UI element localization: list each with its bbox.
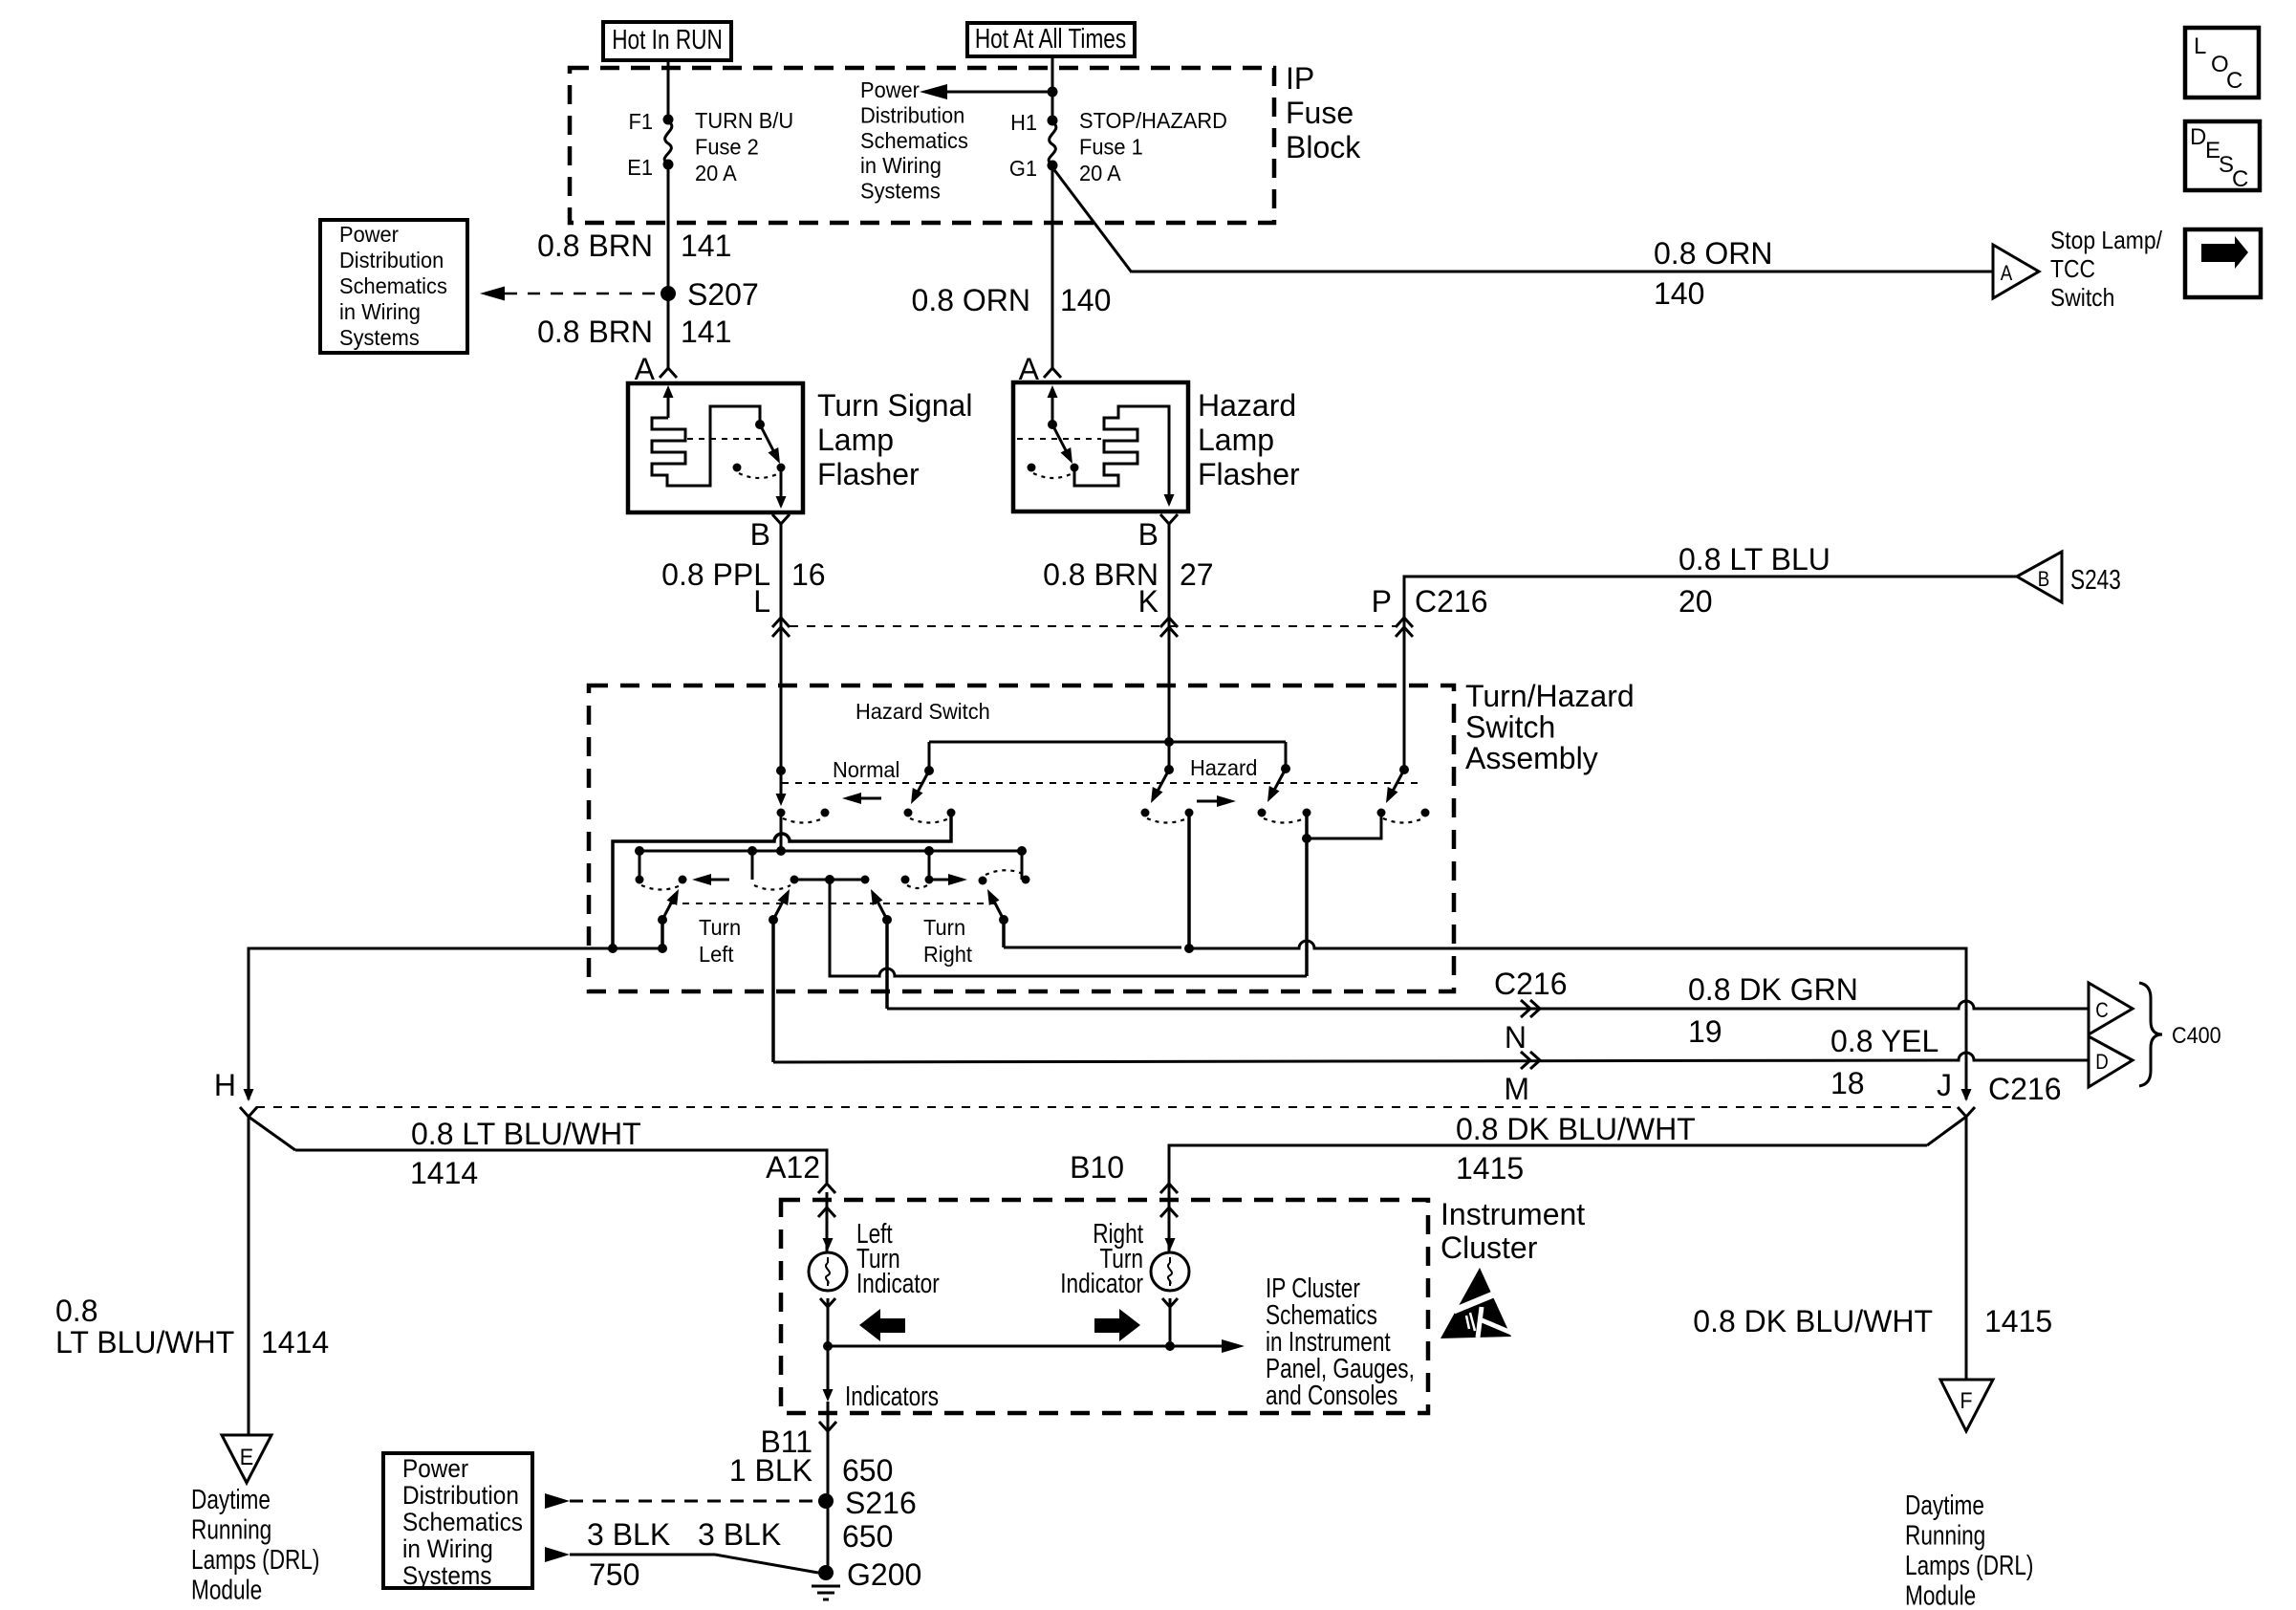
pole K output drop to 1415 feed — [1187, 813, 1191, 948]
bus drop left to pole 2 fixed contact — [928, 742, 931, 771]
svg-text:20 A: 20 A — [1079, 161, 1121, 185]
right turn black arrow — [1094, 1318, 1119, 1333]
turn flasher internal input arrow — [667, 394, 670, 418]
pole 4 lever arrow — [1390, 770, 1404, 796]
svg-text:H: H — [214, 1068, 236, 1102]
pole K moving contacts and arc — [1141, 809, 1150, 817]
svg-text:Turn: Turn — [923, 915, 965, 940]
node: Hot In RUN feed box — [603, 22, 731, 60]
svg-text:0.8 DK BLU/WHT: 0.8 DK BLU/WHT — [1456, 1112, 1696, 1146]
left turn black arrow — [880, 1318, 905, 1333]
turn row dashed line — [669, 903, 994, 904]
connector F triangle to DRL module — [1940, 1380, 1993, 1431]
turn-left direction arrow — [701, 879, 729, 881]
svg-text:3 BLK: 3 BLK — [587, 1517, 670, 1552]
turn outer-right pole contacts and arc (arc above) — [979, 877, 987, 885]
svg-text:Distribution: Distribution — [860, 103, 964, 128]
hazard switch row dashed line — [782, 782, 1423, 784]
wire 0.8 ORN 140 horizontal to Stop Lamp/TCC switch — [1132, 271, 1993, 273]
turn-right pole contacts and arc — [861, 876, 870, 884]
turn flasher output arrow to pin B — [780, 468, 783, 506]
hazard switch top bus — [929, 741, 1286, 744]
svg-text:Assembly: Assembly — [1465, 741, 1598, 775]
svg-text:Switch: Switch — [2050, 285, 2114, 313]
svg-text:0.8 LT BLU/WHT: 0.8 LT BLU/WHT — [411, 1117, 641, 1151]
svg-text:Turn: Turn — [699, 915, 741, 940]
pole 3 moving contacts and arc — [1258, 809, 1267, 817]
hazard direction arrow (right) — [1197, 800, 1227, 803]
turn switch bus — [639, 851, 1022, 880]
right turn indicator lamp — [1168, 1192, 1171, 1252]
connector C216 chevrons on wire N — [1521, 1000, 1540, 1017]
wire between indicators and to note arrow — [828, 1345, 1170, 1348]
svg-text:N: N — [1505, 1020, 1527, 1055]
svg-text:F1: F1 — [629, 109, 653, 134]
svg-text:0.8 ORN: 0.8 ORN — [912, 283, 1030, 317]
svg-text:Indicator: Indicator — [1060, 1267, 1143, 1298]
svg-text:Fuse: Fuse — [1286, 96, 1354, 130]
svg-text:Running: Running — [1905, 1519, 1985, 1551]
splice S216 — [818, 1493, 834, 1509]
wire 0.8 BRN 27 from hazard flasher B to switch pin K — [1168, 524, 1171, 770]
svg-text:Schematics: Schematics — [402, 1509, 523, 1536]
wire 1415 feed inside switch (H1) with hops — [1004, 946, 1181, 949]
svg-text:A: A — [635, 352, 656, 386]
turn-right pivot drop to DK GRN wire — [885, 920, 889, 1009]
svg-text:B10: B10 — [1070, 1150, 1124, 1185]
svg-text:B: B — [1138, 517, 1159, 552]
connector C triangle of C400 — [2089, 983, 2133, 1034]
svg-text:K: K — [1138, 584, 1159, 619]
svg-text:G200: G200 — [847, 1557, 921, 1592]
svg-text:Power: Power — [860, 77, 920, 102]
turn-left pole contacts and arc — [636, 876, 644, 884]
svg-text:3 BLK: 3 BLK — [698, 1517, 781, 1552]
hazard flasher internal input arrow — [1051, 394, 1054, 424]
wire H down to module E — [248, 1117, 250, 1435]
svg-text:C: C — [2232, 166, 2248, 192]
svg-text:0.8 YEL: 0.8 YEL — [1830, 1024, 1939, 1058]
wire 0.8 DK BLU/WHT 1415 from J to B10 — [1927, 1117, 1966, 1145]
svg-text:C: C — [2095, 1000, 2109, 1023]
svg-text:H1: H1 — [1010, 110, 1037, 135]
svg-text:IP: IP — [1286, 61, 1314, 96]
wire 3 BLK 750 from power distribution to G200 — [570, 1554, 715, 1556]
component: Turn/Hazard Switch Assembly dashed box — [589, 685, 1454, 991]
svg-text:Lamp: Lamp — [1198, 423, 1274, 457]
brace and label C400 — [2139, 983, 2162, 1086]
svg-text:141: 141 — [681, 228, 731, 263]
connector chevron H with arrow — [244, 1089, 254, 1101]
wire 0.8 PPL 16 from turn flasher B to switch pin L — [780, 524, 783, 771]
svg-text:D: D — [2095, 1052, 2109, 1075]
svg-text:S207: S207 — [687, 277, 759, 312]
svg-text:Indicator: Indicator — [856, 1267, 940, 1298]
indicators output arrow — [827, 1346, 830, 1396]
fuse F1/E1 terminal dots and element - TURN B/U Fuse 2 20A — [663, 115, 674, 125]
svg-text:1415: 1415 — [1984, 1304, 2052, 1338]
thin dashed C216 connector line (L-K-P) — [790, 625, 1396, 627]
svg-text:C216: C216 — [1988, 1072, 2062, 1106]
turn-right direction arrow — [932, 879, 959, 881]
LOC reference box — [2185, 28, 2259, 98]
component: Instrument Cluster dashed box — [781, 1200, 1428, 1413]
svg-text:Fuse 1: Fuse 1 — [1079, 135, 1143, 160]
svg-text:S216: S216 — [845, 1486, 917, 1520]
svg-text:Hot At All Times: Hot At All Times — [975, 22, 1126, 54]
pole 4 link to pole 3 drop — [1307, 813, 1381, 838]
svg-text:20 A: 20 A — [695, 161, 737, 185]
svg-text:0.8: 0.8 — [55, 1294, 97, 1328]
wire 0.8 LT BLU/WHT 1414 diagonal from H — [249, 1117, 295, 1150]
svg-text:20: 20 — [1679, 584, 1713, 619]
hazard flasher contact dots and dashed arc — [1028, 464, 1036, 472]
svg-text:Cluster: Cluster — [1440, 1230, 1538, 1265]
svg-text:Power: Power — [402, 1455, 469, 1483]
svg-text:in Wiring: in Wiring — [402, 1535, 493, 1563]
wire 0.8 BRN 141 from fuse E1 to S207 to turn flasher A — [667, 164, 670, 368]
svg-text:F: F — [1960, 1387, 1972, 1413]
svg-text:Running: Running — [191, 1513, 271, 1545]
pole 4 fixed contact (P) — [1399, 765, 1409, 774]
wire 0.8 YEL 18 from turn-left pivot to connector D (hop at 1415 feed) — [773, 1053, 2089, 1062]
connector E triangle to DRL module — [222, 1435, 271, 1483]
svg-text:Module: Module — [191, 1574, 262, 1605]
svg-text:Hot In RUN: Hot In RUN — [612, 23, 723, 54]
turn flasher switch pivot dot — [755, 420, 765, 429]
turn flasher internal dashed link — [687, 438, 762, 440]
svg-text:C216: C216 — [1415, 584, 1488, 619]
svg-text:Hazard: Hazard — [1190, 755, 1257, 780]
center link drop to turn-right loop — [830, 880, 1307, 976]
svg-text:C400: C400 — [2172, 1022, 2221, 1048]
svg-text:0.8 BRN: 0.8 BRN — [537, 315, 653, 349]
wire L into hazard switch row — [780, 626, 783, 771]
dashed wire from S207 splice to power distribution box with arrow — [505, 293, 658, 295]
svg-text:C216: C216 — [1494, 967, 1568, 1001]
svg-text:Daytime: Daytime — [1905, 1489, 1984, 1520]
svg-text:27: 27 — [1180, 557, 1214, 592]
wire P into hazard switch — [1403, 626, 1406, 770]
svg-text:650: 650 — [842, 1453, 893, 1488]
bottom Power Distribution Schematics box — [383, 1453, 532, 1588]
svg-text:Schematics: Schematics — [860, 128, 968, 153]
connector C216 chevrons on wire M — [1521, 1052, 1540, 1069]
connector C216 chevrons on wire L — [772, 618, 790, 627]
svg-text:Normal: Normal — [833, 757, 899, 782]
hazard flasher switch pivot dot — [1048, 420, 1057, 429]
svg-text:Systems: Systems — [860, 179, 941, 204]
normal direction arrow (left) — [851, 797, 881, 800]
ESD sensitive symbol — [1440, 1268, 1511, 1338]
connector B triangle to S243 — [2017, 552, 2062, 602]
svg-text:19: 19 — [1688, 1014, 1722, 1049]
node: Hot At All Times feed box — [967, 23, 1135, 56]
pin B11 connector chevron — [819, 1422, 836, 1431]
hazard flasher lever arrow — [1052, 424, 1069, 456]
svg-text:Schematics: Schematics — [339, 273, 447, 298]
wire 1 BLK 650 from indicators to S216 — [827, 1402, 830, 1573]
svg-text:L: L — [753, 584, 770, 619]
svg-text:Systems: Systems — [339, 325, 420, 350]
svg-text:Right: Right — [923, 942, 973, 967]
pole 2 moving contacts and arc — [904, 809, 913, 817]
pole K fixed contact — [1164, 765, 1174, 774]
svg-text:Block: Block — [1286, 130, 1361, 164]
splice S207 — [661, 286, 676, 301]
component: Hazard Lamp Flasher box — [1013, 382, 1188, 511]
svg-text:A: A — [2001, 263, 2013, 286]
svg-text:1415: 1415 — [1456, 1151, 1524, 1186]
wire 0.8 DK BLU/WHT 1415 vertical feed down to J — [1965, 948, 1968, 1095]
turn flasher heater meander element — [652, 406, 760, 486]
svg-text:Indicators: Indicators — [845, 1380, 939, 1411]
wire 0.8 LT BLU/WHT 1414 horizontal to A12 — [295, 1150, 827, 1183]
svg-text:E: E — [240, 1444, 253, 1469]
svg-text:140: 140 — [1060, 283, 1111, 317]
turn outer-right pivot drop to 1415 feed wire — [1002, 920, 1006, 947]
connector C216 chevrons on wire K — [1160, 618, 1178, 627]
turn mid pivot drop to YEL wire — [771, 920, 775, 1062]
ground G200 — [818, 1565, 834, 1580]
svg-text:L: L — [2194, 33, 2206, 59]
svg-text:0.8 DK BLU/WHT: 0.8 DK BLU/WHT — [1693, 1304, 1933, 1338]
svg-text:Daytime: Daytime — [191, 1483, 271, 1514]
svg-text:Fuse 2: Fuse 2 — [695, 135, 759, 160]
component: Turn Signal Lamp Flasher box — [628, 383, 803, 512]
svg-text:Lamps (DRL): Lamps (DRL) — [1905, 1549, 2033, 1580]
svg-text:Stop Lamp/: Stop Lamp/ — [2050, 228, 2162, 255]
svg-text:Left: Left — [699, 942, 734, 967]
pole 3 output drop (turn-right loop) — [1305, 813, 1309, 976]
svg-text:18: 18 — [1830, 1066, 1865, 1100]
svg-text:B: B — [2038, 569, 2049, 592]
pole 4 moving contacts and arc — [1377, 809, 1386, 817]
wire 0.8 LT BLU 20 from S243 to switch pin P — [1404, 577, 2017, 771]
thin dashed C216 connector line (H-J) — [256, 1106, 1953, 1108]
bus drop right to pole 3 fixed contact — [1285, 742, 1288, 769]
svg-text:0.8 DK GRN: 0.8 DK GRN — [1688, 972, 1858, 1007]
turn-right lever arrow — [882, 915, 892, 925]
connector J with arrow and chevron — [1961, 1089, 1972, 1101]
svg-text:C: C — [2226, 68, 2242, 94]
svg-text:in Wiring: in Wiring — [339, 299, 421, 324]
turn flasher lever arrow — [760, 424, 776, 456]
svg-text:Power: Power — [339, 222, 399, 247]
arrow to power distribution schematics (left) — [944, 91, 1052, 94]
svg-text:141: 141 — [681, 315, 731, 349]
hazard switch pole 1 fixed contact (L) — [776, 766, 786, 775]
svg-text:Hazard Switch: Hazard Switch — [856, 699, 990, 724]
wire H net left segment to module E — [249, 948, 663, 1096]
wire from Hot In RUN down to fuse F1 — [667, 60, 670, 120]
svg-text:STOP/HAZARD: STOP/HAZARD — [1079, 108, 1227, 133]
hazard flasher internal dashed link — [1017, 438, 1101, 440]
pole K lever arrow — [1155, 770, 1169, 796]
junction dot under left indicator — [823, 1341, 833, 1351]
diagonal branch from G1 to stop lamp feed wire — [1052, 167, 1132, 272]
svg-text:140: 140 — [1654, 276, 1704, 311]
svg-text:1414: 1414 — [261, 1325, 329, 1360]
svg-text:Flasher: Flasher — [817, 457, 920, 491]
svg-text:Turn Signal: Turn Signal — [817, 388, 972, 423]
svg-text:D: D — [2190, 124, 2206, 150]
svg-text:E1: E1 — [627, 155, 653, 180]
fuse H1/G1 terminal dots and element - STOP/HAZARD Fuse 1 20A — [1048, 116, 1058, 126]
svg-text:Lamp: Lamp — [817, 423, 894, 457]
turn flasher contact dots and dashed arc — [733, 464, 742, 472]
svg-text:650: 650 — [842, 1519, 893, 1554]
svg-text:Turn/Hazard: Turn/Hazard — [1465, 679, 1635, 713]
hazard switch pole 1 moving contacts and arc — [777, 809, 786, 817]
svg-text:Hazard: Hazard — [1198, 388, 1296, 423]
junction dot K on top bus — [1164, 737, 1174, 747]
svg-text:J: J — [1937, 1068, 1952, 1102]
svg-text:0.8 LT BLU: 0.8 LT BLU — [1679, 542, 1830, 577]
svg-text:0.8 BRN: 0.8 BRN — [537, 228, 653, 263]
turn outer-right lever arrow — [999, 915, 1008, 925]
svg-text:Instrument: Instrument — [1440, 1197, 1585, 1231]
svg-text:750: 750 — [589, 1557, 639, 1592]
IP Fuse Block dashed boundary — [570, 68, 1274, 223]
svg-text:LT BLU/WHT: LT BLU/WHT — [55, 1325, 234, 1360]
wire 0.8 DK GRN 19 from turn-right pivot to connector C (hop at 1415 feed) — [887, 1001, 2089, 1009]
turn-left lever arrow — [658, 915, 667, 925]
wire K into hazard switch — [1168, 626, 1171, 770]
turn mid lever arrow — [769, 915, 778, 925]
pole 3 lever arrow — [1271, 769, 1286, 795]
turn-left pivot drop to H net — [661, 920, 664, 948]
svg-text:Flasher: Flasher — [1198, 457, 1300, 491]
wire 0.8 ORN 140 vertical from G1 to hazard flasher A — [1051, 165, 1054, 368]
svg-text:1414: 1414 — [410, 1156, 478, 1190]
svg-text:and Consoles: and Consoles — [1266, 1379, 1397, 1410]
next-page arrow box — [2185, 229, 2261, 297]
wire 0.8 DK BLU/WHT 1415 down to module F — [1965, 1117, 1968, 1380]
wire from Hot At All Times down to fuse H1 — [1051, 56, 1054, 120]
connector C216 chevrons on wire P — [1396, 618, 1413, 627]
svg-text:Systems: Systems — [402, 1562, 491, 1590]
svg-text:G1: G1 — [1009, 156, 1037, 181]
left Power Distribution Schematics box — [320, 220, 467, 353]
turn mid pole contacts and arc — [791, 876, 799, 884]
svg-text:Module: Module — [1905, 1579, 1976, 1610]
svg-text:S243: S243 — [2070, 563, 2121, 595]
left turn indicator lamp — [826, 1192, 829, 1252]
svg-text:Distribution: Distribution — [402, 1482, 519, 1510]
svg-text:TURN B/U: TURN B/U — [695, 108, 793, 133]
svg-text:Switch: Switch — [1465, 710, 1555, 745]
pole 2 output wire down-left (to H net) — [613, 813, 951, 948]
L wire junction into turn bus — [751, 851, 754, 880]
svg-text:M: M — [1504, 1072, 1529, 1106]
connector D triangle of C400 — [2089, 1036, 2133, 1087]
svg-text:16: 16 — [791, 557, 826, 592]
svg-text:in Wiring: in Wiring — [860, 154, 942, 179]
svg-text:A12: A12 — [766, 1150, 820, 1185]
svg-text:Distribution: Distribution — [339, 248, 444, 272]
svg-text:B: B — [750, 517, 770, 552]
turn row center link — [794, 879, 865, 881]
DESC reference box — [2185, 121, 2260, 190]
dashed wire to power distribution (S216) — [570, 1500, 812, 1503]
svg-text:P: P — [1372, 584, 1392, 619]
hazard flasher heater meander element — [1074, 406, 1169, 504]
svg-text:Lamps (DRL): Lamps (DRL) — [191, 1543, 319, 1575]
svg-text:TCC: TCC — [2050, 256, 2095, 284]
pole 2 lever arrow — [915, 771, 929, 797]
connector A triangle to Stop Lamp/TCC Switch — [1993, 245, 2039, 298]
svg-text:1 BLK: 1 BLK — [729, 1453, 812, 1488]
svg-text:0.8 ORN: 0.8 ORN — [1654, 236, 1772, 271]
